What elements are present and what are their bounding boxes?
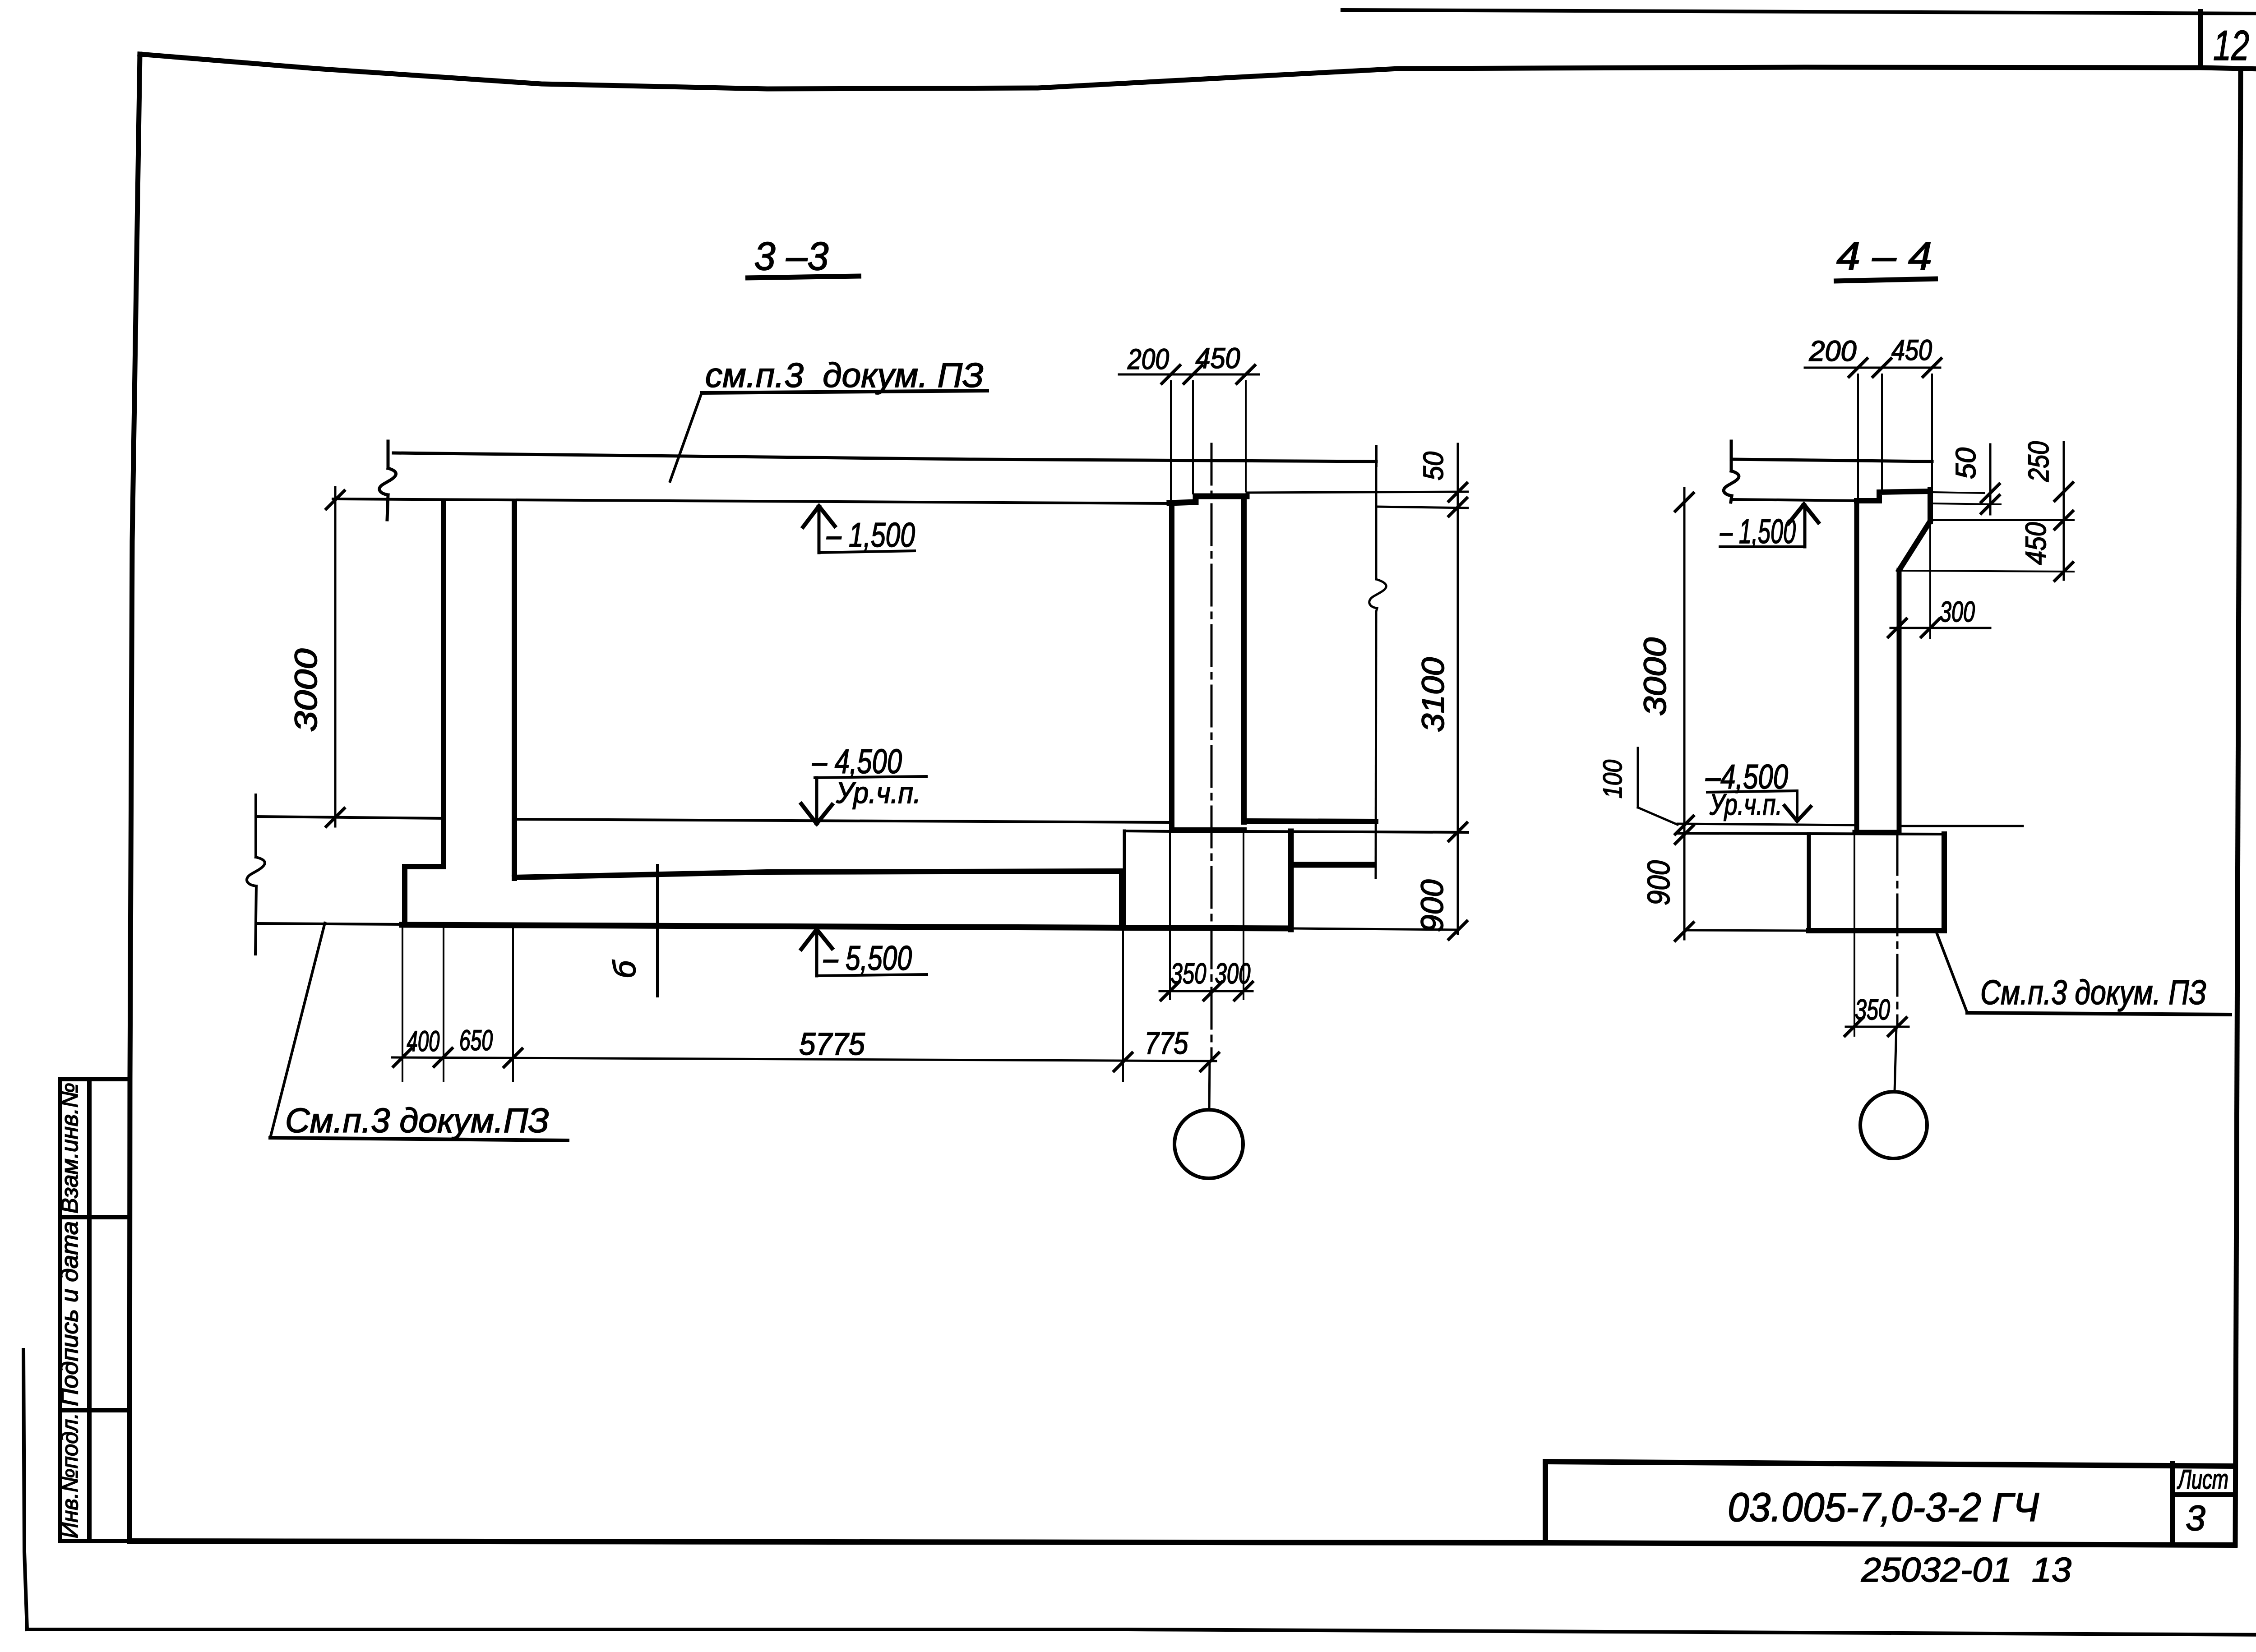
svg-text:5775: 5775 xyxy=(799,1026,865,1061)
centerline 4-4 xyxy=(1896,834,1899,1027)
footing bottom 4-4 xyxy=(1809,928,1944,933)
extension lines for 200 450 xyxy=(1170,381,1172,499)
stamp column outline xyxy=(58,1079,62,1541)
svg-text:50: 50 xyxy=(1418,452,1449,480)
footing pad top line xyxy=(1124,831,1172,831)
floor upper line left 4-4 xyxy=(1678,824,1855,825)
floor line left part xyxy=(256,817,444,818)
floor line right of wall thick xyxy=(1244,821,1376,821)
dim 3000 900 vertical 4-4 xyxy=(1683,488,1686,939)
centerline of right wall xyxy=(1211,444,1213,1061)
svg-text:3: 3 xyxy=(2186,1498,2205,1538)
svg-text:– 4,500: – 4,500 xyxy=(812,743,902,781)
dim 300 4-4 xyxy=(1891,627,1990,629)
svg-text:350: 350 xyxy=(1855,993,1890,1026)
top slab top line xyxy=(393,453,1376,461)
top slab left end tick with break xyxy=(387,441,390,468)
svg-text:250: 250 xyxy=(2022,441,2055,482)
extension to 900 dim xyxy=(1291,928,1457,930)
bottom slab and pad bottom thick xyxy=(402,925,1291,928)
sheet number box xyxy=(2198,11,2203,68)
right wall right edge xyxy=(1241,496,1247,822)
slab bottom line right of wall xyxy=(1247,492,1468,493)
floor line right of wall 4-4 xyxy=(1898,825,2023,827)
top slab bottom line xyxy=(333,499,1170,503)
svg-text:200: 200 xyxy=(1809,335,1857,367)
section title 4-4 xyxy=(1834,234,1938,281)
svg-text:4 – 4: 4 – 4 xyxy=(1836,234,1932,278)
svg-text:300: 300 xyxy=(1940,595,1975,628)
svg-text:650: 650 xyxy=(459,1024,493,1057)
svg-text:См.п.3 докум.ПЗ: См.п.3 докум.ПЗ xyxy=(285,1102,549,1140)
svg-text:900: 900 xyxy=(1415,879,1450,932)
svg-text:25032-01 13: 25032-01 13 xyxy=(1861,1551,2071,1589)
right dim chain vertical xyxy=(1457,444,1459,934)
svg-text:см.п.3 докум. ПЗ: см.п.3 докум. ПЗ xyxy=(705,356,984,395)
excavation line left thin xyxy=(256,923,402,924)
footing right edge 4-4 xyxy=(1942,834,1947,931)
floor lines left end break xyxy=(254,795,257,857)
haunch 4-4 xyxy=(1899,521,1930,570)
frame left border xyxy=(129,54,140,1541)
floor ledge beyond xyxy=(1292,862,1372,868)
elevation marker -4,500 urchp xyxy=(801,776,926,824)
right wall left edge xyxy=(1169,503,1174,830)
frame bottom border xyxy=(129,1541,2235,1545)
dim line 200 450 top xyxy=(1119,374,1259,376)
svg-text:– 5,500: – 5,500 xyxy=(823,939,912,978)
right wall bottom on pad xyxy=(1172,827,1244,833)
frame right border xyxy=(2235,69,2241,1545)
svg-text:3000: 3000 xyxy=(1637,637,1673,716)
marker 100 lines xyxy=(1637,748,1639,808)
title block outline xyxy=(1545,1462,2235,1466)
svg-text:350: 350 xyxy=(1171,957,1207,990)
extension lines 200 450 4-4 xyxy=(1857,374,1859,498)
svg-text:450: 450 xyxy=(2020,522,2052,565)
svg-text:Ур.ч.п.: Ур.ч.п. xyxy=(1709,788,1782,821)
slab top line 4-4 xyxy=(1731,459,1932,461)
svg-text:3100: 3100 xyxy=(1415,657,1451,732)
svg-text:450: 450 xyxy=(1196,342,1240,374)
extension lines bottom dims xyxy=(402,928,403,1081)
svg-text:Ур.ч.п.: Ур.ч.п. xyxy=(836,776,921,809)
top slab right end tick xyxy=(1375,446,1378,466)
wall bottom 4-4 xyxy=(1855,830,1897,835)
wall right edge 4-4 xyxy=(1897,570,1902,832)
svg-text:900: 900 xyxy=(1641,860,1676,905)
extension line at 50 level xyxy=(1376,507,1468,508)
left wall left edge xyxy=(441,502,446,867)
svg-text:50: 50 xyxy=(1951,448,1982,479)
grid bubble circle 3-3 xyxy=(1174,1110,1243,1178)
bottom slab top line xyxy=(514,871,1122,877)
svg-text:Подпись и дата: Подпись и дата xyxy=(57,1221,83,1406)
section mark b line xyxy=(656,865,659,996)
dim 350 300 below right wall xyxy=(1160,990,1253,992)
svg-text:100: 100 xyxy=(1598,760,1627,798)
paper top edge xyxy=(1342,10,2256,14)
extension line from slab with break xyxy=(1375,466,1378,579)
svg-text:775: 775 xyxy=(1145,1025,1189,1061)
slab left end tick with break 4-4 xyxy=(1730,441,1733,471)
frame top border xyxy=(140,54,2256,89)
svg-text:450: 450 xyxy=(1891,334,1932,366)
elevation marker -1,500 xyxy=(803,506,915,553)
left wall footing step xyxy=(405,867,444,925)
right wall top step xyxy=(1170,496,1247,503)
bottom slab right end xyxy=(1119,871,1124,927)
svg-text:400: 400 xyxy=(407,1025,440,1057)
footing pad right edge xyxy=(1288,831,1294,929)
dim 250 450 right 4-4 xyxy=(2063,442,2065,580)
svg-text:03.005-7,0-3-2 ГЧ: 03.005-7,0-3-2 ГЧ xyxy=(1728,1485,2039,1530)
svg-text:б: б xyxy=(607,960,642,978)
wall left edge 4-4 xyxy=(1854,501,1859,832)
svg-text:300: 300 xyxy=(1215,957,1251,990)
dim 50 right 4-4 xyxy=(1932,492,1984,493)
elevation marker -1,500 4-4 xyxy=(1720,504,1818,547)
svg-text:Лист: Лист xyxy=(2177,1464,2228,1495)
svg-text:Инв.№подл.: Инв.№подл. xyxy=(57,1413,83,1538)
floor lower line and footing top 4-4 xyxy=(1678,833,1944,834)
corbel right edge 4-4 xyxy=(1928,490,1933,521)
svg-text:– 1,500: – 1,500 xyxy=(1720,512,1796,551)
section title 3-3 xyxy=(745,234,861,278)
paper bottom edge xyxy=(27,1629,2256,1635)
grid bubble circle 4-4 xyxy=(1860,1092,1927,1158)
dim 350 4-4 xyxy=(1846,1026,1909,1028)
dim line 200 450 top 4-4 xyxy=(1805,367,1940,369)
bottom dim chain xyxy=(392,1057,1216,1061)
elevation marker -5,500 xyxy=(801,929,927,976)
footing pad left edge xyxy=(1123,831,1126,928)
svg-text:3 –3: 3 –3 xyxy=(754,234,829,278)
svg-text:12: 12 xyxy=(2213,22,2249,69)
floor line middle part xyxy=(514,819,1170,822)
leader into footing 4-4 xyxy=(1936,930,1967,1013)
paper left edge xyxy=(23,1350,27,1629)
elevation marker -4,500 urchp 4-4 xyxy=(1707,791,1811,821)
svg-text:3000: 3000 xyxy=(288,648,324,732)
dim 3000 left vertical xyxy=(334,487,337,826)
svg-text:200: 200 xyxy=(1127,343,1169,375)
footing left edge 4-4 xyxy=(1807,834,1811,931)
left wall right edge xyxy=(512,502,517,878)
footing bottom extension to dim 4-4 xyxy=(1684,930,1809,931)
wall top ledge 4-4 xyxy=(1857,491,1930,501)
slab bottom line 4-4 xyxy=(1733,499,1857,501)
leader to slab xyxy=(670,393,702,481)
svg-text:См.п.3 докум. ПЗ: См.п.3 докум. ПЗ xyxy=(1980,974,2206,1012)
leader to excavation line xyxy=(270,923,325,1138)
svg-text:Взам.инв.№: Взам.инв.№ xyxy=(57,1083,83,1214)
svg-text:– 1,500: – 1,500 xyxy=(826,516,915,554)
